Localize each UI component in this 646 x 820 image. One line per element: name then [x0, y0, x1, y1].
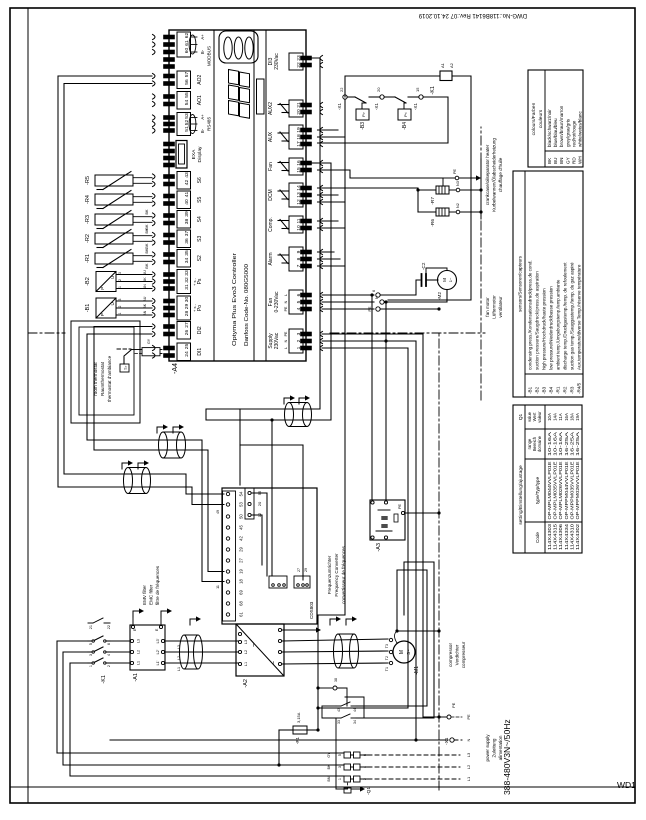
- svg-text:-R6: -R6: [430, 219, 436, 227]
- svg-text:L1: L1: [244, 662, 248, 666]
- svg-text:crankcase/oilseparator heater: crankcase/oilseparator heater: [485, 144, 490, 205]
- svg-text:Optyma Plus Evo3 Controller: Optyma Plus Evo3 Controller: [232, 253, 238, 346]
- wire Q1 to X1 L1 dashed: [360, 778, 368, 780]
- terminal X1:N fan: [380, 300, 384, 304]
- svg-text:N2: N2: [456, 203, 460, 208]
- wire drive relay block 55: [252, 493, 267, 576]
- svg-text:33: 33: [184, 270, 190, 276]
- room thermostat contact: [117, 348, 131, 350]
- svg-text:BK: BK: [547, 157, 552, 164]
- svg-text:AUX: AUX: [268, 131, 274, 142]
- svg-text:27: 27: [239, 558, 244, 563]
- svg-text:114X4334: 114X4334: [564, 523, 569, 550]
- svg-text:-R2: -R2: [85, 234, 91, 243]
- svg-text:1: 1: [118, 312, 122, 314]
- svg-text:24: 24: [184, 351, 190, 357]
- controller AO1 terminals 54 55: [153, 101, 156, 106]
- svg-text:Raumthermostat: Raumthermostat: [100, 361, 105, 396]
- wire AUX relay stubs: [318, 136, 346, 138]
- svg-text:Comp.: Comp.: [268, 217, 274, 232]
- svg-text:57: 57: [184, 72, 190, 78]
- svg-text:P: P: [100, 287, 105, 290]
- svg-text:PE: PE: [453, 168, 457, 174]
- svg-text:high pressure/Hochdruck/haute: high pressure/Hochdruck/haute pression: [542, 288, 547, 370]
- svg-text:domaine: domaine: [537, 435, 542, 452]
- svg-text:L3': L3': [156, 638, 160, 643]
- svg-text:36: 36: [184, 238, 190, 244]
- thermostat cable sheath: [142, 348, 160, 356]
- EMC filter A1 box: [130, 625, 165, 670]
- svg-text:-X1: -X1: [413, 103, 418, 111]
- wire drive relay block link: [240, 445, 303, 580]
- svg-text:P<: P<: [404, 111, 408, 117]
- wire DI2 inputs to drive terminals 18 27: [87, 334, 152, 440]
- svg-text:Zuleitung: Zuleitung: [492, 738, 497, 757]
- ferrite core on analog output cable: [124, 468, 133, 494]
- svg-text:43: 43: [337, 708, 341, 712]
- svg-text:Q1: Q1: [518, 413, 524, 420]
- svg-text:WH: WH: [578, 156, 583, 164]
- svg-text:5: 5: [338, 754, 342, 756]
- svg-text:brown/braun/marron: brown/braun/marron: [559, 105, 564, 147]
- svg-text:40: 40: [184, 199, 190, 205]
- wire compressor protector: [395, 631, 398, 643]
- svg-text:69: 69: [239, 590, 244, 595]
- svg-text:10-16A: 10-16A: [553, 432, 558, 456]
- svg-text:P>: P>: [362, 111, 366, 117]
- svg-text:couleurs: couleurs: [538, 109, 544, 128]
- wire supply N to controller: [322, 341, 416, 740]
- svg-text:-X1: -X1: [374, 103, 379, 111]
- controller A4 Optyma Plus Evo3 box: [169, 30, 306, 361]
- svg-text:DCM: DCM: [268, 189, 274, 200]
- svg-text:L: L: [284, 347, 288, 349]
- room thermostat enclosure: [71, 321, 140, 423]
- svg-text:-A1: -A1: [133, 673, 139, 682]
- pressure switch B4: [384, 96, 395, 98]
- svg-text:16-25A: 16-25A: [575, 432, 580, 456]
- svg-text:L3: L3: [244, 640, 248, 644]
- A3 PE terminal: [401, 511, 404, 514]
- svg-text:31: 31: [184, 284, 190, 290]
- wire fan PE to enclosure: [380, 308, 439, 310]
- svg-text:PE: PE: [284, 331, 288, 336]
- svg-text:A2: A2: [449, 62, 454, 68]
- ferrite core on motor cable: [334, 634, 343, 668]
- svg-text:19: 19: [239, 569, 244, 574]
- svg-text:15: 15: [415, 87, 420, 92]
- controller input S3 terminals 36 37: [153, 240, 156, 245]
- svg-text:29: 29: [304, 568, 308, 572]
- svg-text:OP-MPPM035VVLP01E: OP-MPPM035VVLP01E: [569, 461, 574, 519]
- terminal X1:22: [343, 95, 347, 99]
- svg-text:MODBUS: MODBUS: [207, 46, 212, 66]
- wire fan motor neutral: [386, 290, 447, 303]
- svg-text:3: 3: [118, 272, 122, 274]
- neutral bus wire: [110, 739, 448, 741]
- controller logo display window: [219, 31, 258, 63]
- svg-text:-R3: -R3: [85, 215, 91, 224]
- terminal X1:15: [419, 95, 423, 99]
- A3 terminals: [371, 536, 374, 539]
- wire fused supply to X1:22: [318, 99, 345, 730]
- A1 output terminals: [161, 661, 164, 664]
- svg-text:35: 35: [184, 250, 190, 256]
- svg-text:-B4: -B4: [402, 122, 408, 130]
- svg-text:DI3: DI3: [268, 57, 274, 65]
- svg-text:red/rot/rouge: red/rot/rouge: [571, 120, 576, 147]
- svg-text:P: P: [100, 313, 105, 316]
- controller spare terminals 58 59: [163, 64, 175, 69]
- svg-text:white/weiss/blanc: white/weiss/blanc: [578, 111, 583, 147]
- wire supply L to controller: [318, 348, 408, 708]
- svg-text:OP-MPPM026VVLP01E: OP-MPPM026VVLP01E: [575, 461, 580, 519]
- svg-text:colours/Farben: colours/Farben: [531, 102, 537, 135]
- svg-text:-B1: -B1: [85, 304, 91, 313]
- controller output Fan 0-230Vac terminals 4 5 6: [289, 290, 303, 314]
- controller input S6 terminals 42 43: [153, 181, 156, 186]
- svg-text:S5: S5: [197, 196, 203, 202]
- enclosure boundary heater line: [480, 127, 482, 400]
- svg-text:A1: A1: [440, 62, 445, 68]
- svg-text:T1: T1: [385, 667, 389, 671]
- wire drive terminal to fan relay via ferrite: [272, 163, 331, 576]
- A2 PE output to earth: [282, 629, 316, 631]
- wire fan motor aux winding: [426, 268, 447, 274]
- wire L1 feeder: [70, 663, 344, 776]
- wire DCM to heaters: [318, 188, 437, 190]
- svg-text:54: 54: [184, 100, 190, 106]
- svg-text:2: 2: [118, 279, 122, 281]
- terminal X1 N: [450, 738, 454, 742]
- svg-text:20: 20: [257, 501, 262, 506]
- svg-text:30: 30: [184, 297, 190, 303]
- svg-text:OP-MPLM026VVLP01E: OP-MPLM026VVLP01E: [558, 461, 563, 519]
- svg-text:114X4315: 114X4315: [553, 523, 558, 550]
- svg-text:10-16A: 10-16A: [547, 432, 552, 456]
- svg-text:OP-MPLM035VVLP01E: OP-MPLM035VVLP01E: [553, 461, 558, 519]
- controller 7-segment display: [229, 101, 239, 116]
- svg-text:BK: BK: [145, 228, 149, 234]
- svg-text:53: 53: [239, 502, 244, 507]
- wire drive relay block 12: [252, 515, 262, 565]
- svg-text:DWG-No.:118B6141 Rev.:07 24.: DWG-No.:118B6141 Rev.:07 24.10.2019: [418, 12, 527, 18]
- svg-text:-B2: -B2: [85, 277, 91, 286]
- svg-text:+ s -: + s -: [192, 277, 197, 286]
- svg-text:type/Typ/type: type/Typ/type: [535, 476, 540, 504]
- svg-text:16A: 16A: [564, 413, 569, 421]
- svg-text:T3: T3: [385, 644, 389, 648]
- pressure switch B3: [347, 96, 355, 98]
- ferrite core on mains cable: [180, 635, 189, 669]
- svg-text:PE: PE: [466, 714, 471, 720]
- svg-text:37: 37: [184, 231, 190, 237]
- svg-text:AUX2: AUX2: [268, 102, 274, 115]
- svg-text:BN: BN: [143, 284, 147, 289]
- svg-text:BK: BK: [145, 243, 149, 249]
- svg-text:L: L: [284, 294, 288, 296]
- svg-text:blue/blau/bleu: blue/blau/bleu: [553, 118, 558, 147]
- svg-text:Code: Code: [535, 532, 540, 543]
- svg-text:16-25A: 16-25A: [564, 432, 569, 456]
- wire AO2 analog outputs to drive terminals 53 54: [64, 84, 152, 475]
- svg-text:21: 21: [89, 625, 93, 629]
- svg-text:L2: L2: [137, 650, 141, 654]
- svg-text:M: M: [399, 650, 405, 654]
- svg-text:4: 4: [107, 654, 111, 656]
- svg-text:26: 26: [184, 330, 190, 336]
- wire DCM aux stubs: [318, 201, 346, 203]
- svg-text:1: 1: [118, 286, 122, 288]
- svg-text:38: 38: [334, 678, 338, 682]
- svg-text:18: 18: [239, 579, 244, 584]
- svg-text:3,15A: 3,15A: [296, 712, 301, 723]
- svg-text:-B3: -B3: [542, 386, 547, 394]
- svg-text:black/schwarz/noir: black/schwarz/noir: [547, 109, 552, 147]
- svg-text:44: 44: [353, 708, 357, 712]
- svg-text:0-230Vac: 0-230Vac: [274, 291, 280, 313]
- wire fan L to filter A3: [371, 295, 373, 500]
- svg-text:11: 11: [216, 585, 220, 589]
- svg-text:convertisseur de fréquences: convertisseur de fréquences: [341, 545, 346, 603]
- svg-text:N: N: [284, 300, 288, 303]
- contactor K1 aux contact 21 22: [88, 622, 93, 624]
- svg-text:PE: PE: [398, 503, 402, 509]
- svg-text:L1': L1': [156, 660, 160, 665]
- wire X1:6 to fan capacitor: [380, 280, 420, 295]
- svg-text:3: 3: [338, 766, 342, 768]
- terminal circle 38: [318, 687, 333, 689]
- svg-text:L3: L3: [137, 639, 141, 643]
- svg-text:11A: 11A: [558, 413, 563, 421]
- controller AUX relay terminals 17 18 19: [289, 125, 303, 149]
- svg-text:41: 41: [184, 192, 190, 198]
- svg-text:-A4: -A4: [172, 363, 179, 374]
- svg-text:Aux.temperature/diverse Temp./: Aux.temperature/diverse Temp./réserve te…: [577, 264, 582, 370]
- svg-text:-A2: -A2: [243, 679, 249, 688]
- heater resistor -R7: [436, 186, 449, 194]
- wire ferrite loop join: [206, 409, 272, 420]
- main switch Q1 poles: [344, 776, 351, 782]
- svg-text:62: 62: [184, 33, 190, 39]
- svg-text:34: 34: [184, 258, 190, 264]
- svg-text:A+: A+: [200, 114, 205, 120]
- svg-text:BK: BK: [327, 764, 331, 769]
- wire aux contacts loop: [322, 706, 336, 718]
- svg-text:42: 42: [184, 180, 190, 186]
- svg-text:19A: 19A: [575, 413, 580, 421]
- svg-text:-A3: -A3: [376, 543, 382, 552]
- svg-text:39: 39: [184, 211, 190, 217]
- earth arrows motor shield: [330, 619, 336, 625]
- svg-text:BK: BK: [143, 303, 147, 308]
- svg-text:1: 1: [89, 665, 93, 667]
- wire Q1 to X1 L2 dashed: [360, 766, 368, 768]
- svg-text:114X4306: 114X4306: [558, 523, 563, 550]
- svg-text:6: 6: [107, 643, 111, 645]
- enclosure boundary vertical lower: [330, 332, 485, 334]
- svg-text:-X1: -X1: [337, 103, 342, 111]
- svg-text:230Vac: 230Vac: [274, 332, 280, 349]
- svg-text:114X4303: 114X4303: [547, 523, 552, 550]
- setting table Q1: [513, 405, 582, 553]
- svg-text:CDS803: CDS803: [309, 601, 314, 619]
- svg-text:-R5: -R5: [85, 176, 91, 185]
- svg-text:AO2: AO2: [197, 75, 203, 85]
- wire L2 feeder: [63, 652, 344, 765]
- wire Q1 to X1 L3 dashed: [360, 754, 368, 756]
- svg-text:-R7: -R7: [430, 197, 436, 205]
- svg-text:discharge temp./Druckgastemp./: discharge temp./Druckgastemp./temp. de r…: [563, 262, 568, 370]
- svg-text:33: 33: [337, 720, 341, 724]
- control fuse F1 3.15A: [278, 730, 280, 765]
- svg-text:PE: PE: [451, 702, 456, 708]
- svg-text:34: 34: [353, 720, 357, 724]
- svg-text:B-: B-: [200, 49, 205, 54]
- svg-text:BK: BK: [145, 248, 149, 254]
- svg-text:BU: BU: [143, 296, 147, 301]
- svg-text:chauffage d'huile: chauffage d'huile: [498, 157, 503, 192]
- svg-text:BU: BU: [553, 158, 558, 164]
- svg-text:BK: BK: [145, 263, 149, 269]
- svg-text:RD: RD: [571, 157, 576, 164]
- svg-text:DI1: DI1: [197, 348, 203, 356]
- svg-text:114X4302: 114X4302: [575, 523, 580, 550]
- svg-text:114X4310: 114X4310: [569, 523, 574, 550]
- wire fan relay stubs: [318, 170, 444, 178]
- svg-text:L1: L1: [137, 661, 141, 665]
- wire fan output to X1 terminals: [322, 308, 374, 310]
- svg-text:suction pressure/Saugdruck/pre: suction pressure/Saugdruck/press.de aspi…: [535, 271, 540, 370]
- svg-text:Po: Po: [197, 305, 203, 311]
- wire fan N to filter A3: [385, 302, 387, 500]
- Q1 aux contact 33 34: [336, 717, 341, 719]
- svg-text:-X1: -X1: [444, 737, 450, 745]
- svg-text:OP-MPLM044VVLP01E: OP-MPLM044VVLP01E: [547, 461, 552, 519]
- svg-text:-B1: -B1: [528, 386, 533, 394]
- fan filter A3 box: [370, 500, 405, 540]
- svg-text:S3: S3: [197, 235, 203, 241]
- terminal X1:6 fan: [376, 293, 380, 297]
- A1 input terminals: [130, 661, 133, 664]
- controller input S4 terminals 38 39: [153, 220, 156, 225]
- svg-text:5: 5: [89, 643, 93, 645]
- svg-text:3: 3: [118, 298, 122, 300]
- svg-text:GY: GY: [147, 338, 151, 344]
- svg-text:T>: T>: [124, 366, 128, 370]
- svg-text:U: U: [110, 302, 115, 305]
- svg-text:L2: L2: [244, 650, 248, 654]
- heater PE wire: [443, 177, 455, 179]
- svg-text:Display: Display: [197, 146, 203, 163]
- svg-text:32: 32: [184, 277, 190, 283]
- wire safety chain return to AUX relay: [318, 97, 449, 143]
- wire K1 coil return to neutral: [388, 76, 471, 300]
- wire supply PE to controller: [322, 334, 439, 717]
- Q1 aux contact 43 44: [336, 705, 341, 707]
- svg-text:PE: PE: [368, 306, 372, 312]
- svg-text:M: M: [442, 278, 447, 282]
- cable shield earth arrows: [284, 398, 290, 404]
- wire K1 to A1: [110, 662, 130, 664]
- svg-text:27: 27: [184, 322, 190, 328]
- wire Q1 interlock: [336, 788, 348, 790]
- svg-text:S2: S2: [197, 255, 203, 261]
- svg-text:16-25A: 16-25A: [569, 432, 574, 456]
- svg-text:suction gas temp./Sauggastemp.: suction gas temp./Sauggastemp./temp. du …: [570, 262, 575, 370]
- svg-text:50: 50: [239, 514, 244, 519]
- A2 control terminals: [226, 613, 229, 616]
- controller RS485 terminals 51 52 53: [153, 128, 156, 133]
- svg-text:20: 20: [376, 87, 381, 92]
- svg-text:BN: BN: [559, 158, 564, 164]
- controller Comp relay terminals 10 11: [289, 216, 303, 233]
- svg-text:BN: BN: [327, 776, 331, 781]
- svg-text:388-480V3N~/50Hz: 388-480V3N~/50Hz: [502, 719, 512, 795]
- controller output Supply 230Vac terminals 1 2 3: [289, 329, 303, 353]
- svg-text:T2: T2: [385, 656, 389, 660]
- svg-text:BN: BN: [143, 310, 147, 315]
- protective earth terminal: [447, 715, 451, 719]
- svg-text:Supply: Supply: [268, 333, 274, 349]
- svg-text:BK: BK: [143, 277, 147, 282]
- svg-text:22: 22: [339, 87, 344, 92]
- svg-text:-R3: -R3: [570, 386, 575, 394]
- svg-text:Alarm: Alarm: [268, 252, 274, 265]
- svg-text:L1: L1: [466, 776, 471, 781]
- svg-text:-M2: -M2: [437, 292, 443, 301]
- svg-text:53: 53: [184, 113, 190, 119]
- svg-text:A+: A+: [200, 34, 205, 40]
- terminal X1:PE fan: [376, 307, 380, 311]
- svg-text:-R1: -R1: [556, 386, 561, 394]
- cable shield earth arrows: [157, 427, 163, 433]
- svg-text:~: ~: [271, 661, 278, 665]
- svg-text:BU: BU: [143, 270, 147, 275]
- svg-text:-R4/5: -R4/5: [577, 382, 582, 394]
- controller MODBUS terminals 60 61 62: [153, 49, 156, 54]
- svg-text:L2: L2: [466, 764, 471, 769]
- controller EXA display port: [163, 163, 175, 168]
- controller AUX2 relay terminals 20 21: [289, 100, 303, 117]
- svg-text:-B3: -B3: [360, 122, 366, 130]
- svg-text:-R4: -R4: [85, 195, 91, 204]
- A2 output terminals U V W PE: [278, 662, 281, 665]
- svg-text:10-16A: 10-16A: [558, 432, 563, 456]
- controller Fan relay terminals 15 16: [289, 158, 303, 175]
- svg-text:-M1: -M1: [414, 666, 420, 675]
- svg-text:L2': L2': [156, 649, 160, 654]
- ferrite core on digital input cable: [159, 432, 168, 458]
- svg-text:1~: 1~: [448, 277, 453, 282]
- svg-text:U: U: [110, 276, 115, 279]
- A1 earth terminals: [131, 625, 134, 628]
- svg-text:55: 55: [257, 490, 262, 495]
- svg-text:12: 12: [257, 512, 262, 517]
- svg-text:L3: L3: [177, 645, 181, 649]
- svg-text:Frequency Converter: Frequency Converter: [334, 553, 339, 597]
- svg-text:S4: S4: [197, 216, 203, 222]
- terminal X1:20: [380, 95, 384, 99]
- colour legend table: [528, 70, 583, 167]
- svg-text:3: 3: [89, 654, 93, 656]
- svg-text:condensing press./Kondensation: condensing press./Kondensationsdruck/pre…: [528, 260, 533, 370]
- svg-text:22: 22: [107, 625, 111, 629]
- fan capacitor C2: [421, 274, 423, 286]
- Q1 linkage: [347, 782, 349, 789]
- sensor legend table: [513, 171, 583, 397]
- svg-text:~: ~: [251, 643, 258, 647]
